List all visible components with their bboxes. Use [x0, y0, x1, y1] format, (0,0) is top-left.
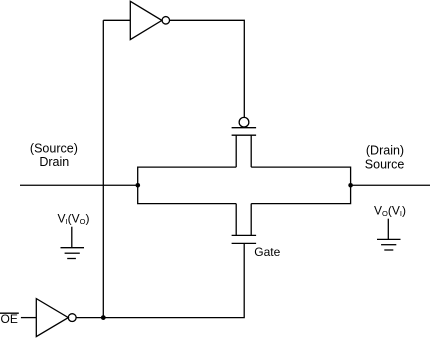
pmos Q1 channel legs — [235, 135, 237, 167]
svg-text:(Source): (Source) — [30, 142, 78, 156]
svg-text:VI(VO): VI(VO) — [58, 212, 90, 227]
nmos Q2 gate bar — [232, 242, 257, 244]
wire Q2 gate to OE node — [103, 243, 244, 317]
transmission gate body — [138, 167, 351, 204]
svg-text:(Drain): (Drain) — [366, 144, 404, 158]
svg-text:OE: OE — [1, 312, 18, 326]
nmos Q2 channel legs — [235, 204, 237, 236]
pmos Q1 gate bar — [232, 127, 257, 129]
pmos Q1 channel bar — [232, 134, 257, 136]
wire U1 input — [103, 19, 130, 21]
svg-text:VO(VI): VO(VI) — [374, 204, 406, 219]
wire left signal — [20, 184, 138, 186]
wire U1 output to PMOS bubble — [170, 20, 245, 117]
inverter U1 (top) — [130, 1, 169, 39]
node left I/O — [136, 183, 141, 188]
svg-text:Gate: Gate — [254, 245, 280, 259]
nmos Q2 channel bar — [232, 234, 257, 236]
pmos Q1 bubble — [239, 117, 249, 127]
wire OE input — [21, 317, 36, 319]
node OE junction — [101, 315, 106, 320]
wire right signal — [351, 184, 430, 186]
ground right — [377, 219, 401, 250]
inverter U2 (OE buffer) — [36, 299, 76, 337]
wire U2 output — [76, 317, 103, 319]
node right I/O — [348, 183, 353, 188]
svg-text:Source: Source — [365, 158, 405, 172]
svg-text:Drain: Drain — [39, 155, 69, 169]
wire control vertical — [102, 20, 104, 317]
OE overline — [0, 312, 19, 314]
ground left — [61, 227, 85, 259]
